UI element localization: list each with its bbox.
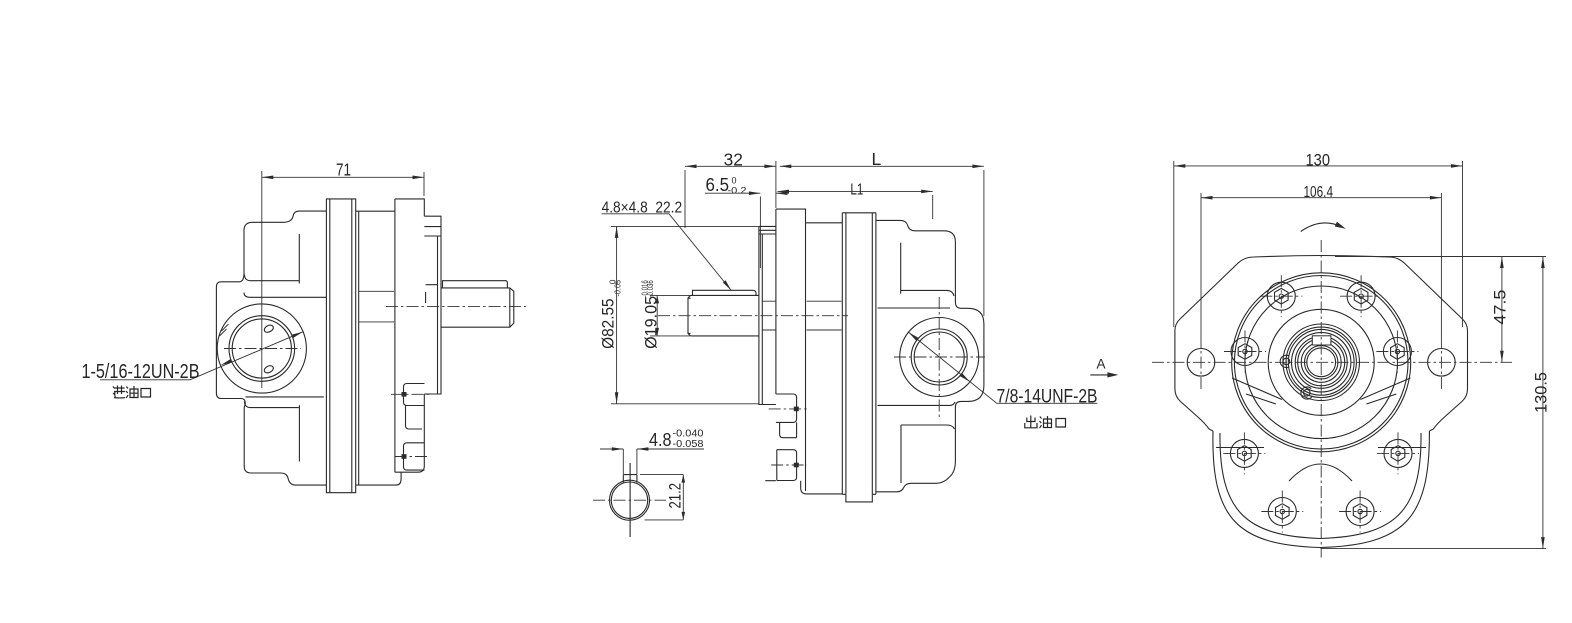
bolt mid-left [1224, 331, 1266, 373]
gear housing [356, 211, 401, 485]
shaft cross-section circle [593, 463, 666, 537]
svg-text:A: A [1097, 357, 1106, 372]
svg-text:47.5: 47.5 [1491, 290, 1510, 325]
inlet port pin hole lower [263, 364, 274, 374]
dimension 4.8 tol (key width) [600, 429, 704, 475]
dimension 47.5 [1335, 257, 1546, 363]
rear cover shelf line lower [246, 396, 324, 398]
bolt upper-left [1260, 275, 1302, 317]
dimension 106.4 [1201, 184, 1441, 336]
svg-text:L1: L1 [850, 182, 863, 199]
flange side boss upper (middle) [776, 394, 797, 422]
seal circles [1286, 327, 1356, 397]
shaft (middle view) [688, 295, 759, 336]
svg-text:1-5/16-12UN-2B: 1-5/16-12UN-2B [82, 361, 200, 383]
dimension 32 [685, 150, 776, 229]
retainer screw left [1283, 358, 1290, 365]
casting web lower-right [1360, 378, 1410, 404]
svg-text:71: 71 [336, 160, 351, 180]
thread hatch marks [220, 324, 229, 336]
bolt bottom-right [1339, 491, 1381, 533]
rear cover outline [216, 211, 326, 485]
gear housing outer circles [1232, 273, 1411, 452]
middle view: side view of gear pump (outlet side) [593, 149, 1118, 537]
shaft key (middle view) [693, 290, 757, 295]
right view horizontal centerline [1152, 361, 1512, 363]
middle plate (middle view) [842, 213, 876, 502]
svg-text:130.5: 130.5 [1532, 372, 1551, 413]
svg-text:-0.036: -0.036 [645, 280, 655, 297]
shelf line right [1378, 447, 1426, 449]
rear cover pocket vertical [298, 234, 300, 284]
rotation direction arrow [1301, 222, 1346, 232]
seal housing circle [1268, 309, 1374, 415]
keyway notch [1312, 336, 1331, 345]
inlet port horizontal centerline [224, 348, 301, 350]
svg-text:Ø82.55: Ø82.55 [600, 298, 618, 349]
dimension 130 [1174, 152, 1463, 328]
retainer screw lower [1304, 390, 1311, 397]
shaft [441, 288, 514, 327]
rear cover outline (middle view) [876, 220, 984, 491]
label 进油口 (oil inlet) [113, 386, 151, 399]
leader 7/8-14UNF-2B [908, 332, 1097, 407]
front cover boss circle [1245, 286, 1398, 439]
dimension 71 [262, 160, 424, 197]
svg-text:-0.05: -0.05 [612, 280, 622, 297]
mounting flange [395, 199, 424, 472]
inlet port pin hole upper [263, 324, 274, 334]
shaft centerline [386, 306, 526, 308]
shaft bore circle [1301, 342, 1341, 382]
svg-text:106.4: 106.4 [1304, 184, 1334, 201]
inlet port thread major circle [229, 316, 295, 382]
inlet port thread minor circle [232, 319, 291, 378]
port vertical centerline [261, 171, 263, 388]
pilot bore stub lines [763, 301, 776, 330]
gear bore lines (middle) [807, 301, 842, 330]
shelf line left [1216, 447, 1264, 449]
bolt bottom-left [1261, 491, 1303, 533]
outlet port thread circles [911, 329, 967, 385]
side boss upper step [406, 406, 423, 430]
svg-text:-0.2: -0.2 [728, 186, 747, 196]
rear cover inner shelf lower [878, 402, 956, 405]
gear bore lines [359, 291, 394, 322]
svg-text:130: 130 [1306, 152, 1331, 170]
svg-text:Ø19.05: Ø19.05 [643, 296, 661, 349]
rear cover lower body inner wall [1220, 433, 1421, 539]
gerotor bump arc [1289, 464, 1352, 481]
svg-text:4.8: 4.8 [649, 430, 672, 450]
svg-text:-0.040: -0.040 [673, 429, 704, 440]
rear cover shelf line upper [244, 293, 326, 298]
ear hole left [1187, 349, 1215, 377]
retainer thick circle [1283, 324, 1360, 401]
right view vertical centerline [1320, 240, 1322, 558]
dimension dia19.05 tol [640, 280, 713, 349]
mounting flange (middle) [765, 209, 805, 491]
ear hole right [1428, 349, 1456, 377]
pilot keyway lines [426, 285, 438, 303]
right view: front (flange face) view [1152, 152, 1551, 558]
svg-text:0: 0 [732, 176, 737, 186]
dimension L [780, 149, 984, 316]
shaft centerline (middle view) [658, 315, 848, 317]
svg-text:6.5: 6.5 [706, 175, 730, 195]
section view arrow A [1090, 357, 1118, 378]
side boss upper [404, 384, 425, 406]
dimension dia82.55 tol [600, 226, 759, 403]
dimension 6.5 tol [705, 161, 789, 268]
middle plate [326, 199, 355, 493]
casting web lower-left [1232, 378, 1282, 404]
dimension L1 [778, 182, 933, 220]
outlet port boss circle [900, 318, 979, 397]
shaft key [443, 281, 508, 288]
svg-text:21.2: 21.2 [667, 483, 685, 509]
flange side boss lower (middle) [777, 450, 797, 481]
gear housing (middle) [801, 223, 843, 494]
label 出油口 (oil outlet) [1025, 416, 1066, 429]
pilot ring [424, 236, 441, 394]
side boss upper centerline [391, 393, 430, 395]
bolt lower-left [1223, 432, 1265, 474]
rear cover inner shelf upper [878, 307, 951, 309]
bolt upper-right [1340, 275, 1382, 317]
pilot step block [424, 216, 441, 236]
dimension 21.2 [640, 475, 685, 520]
leader line 1-5/16-12UN-2B [82, 332, 304, 383]
inlet port boss circle [217, 304, 306, 393]
svg-text:7/8-14UNF-2B: 7/8-14UNF-2B [997, 387, 1098, 408]
svg-text:-0.058: -0.058 [673, 439, 704, 450]
side boss lower [404, 443, 425, 470]
pilot step block (middle) [759, 226, 776, 404]
rear cover pocket lines [244, 275, 299, 281]
bolt mid-right [1376, 331, 1418, 373]
keyway leader 4.8x4.8 22.2 [602, 200, 732, 291]
outlet port centerlines [894, 356, 985, 358]
bolt lower-right [1377, 432, 1419, 474]
flange plate outline [1175, 256, 1468, 432]
rear cover pocket lines (middle) [901, 243, 954, 296]
left view: side view of gear pump (inlet side) [82, 160, 527, 493]
rear cover lower body outline [1213, 431, 1430, 548]
side boss lower centerline [395, 456, 431, 458]
dimension 130.5 [1321, 257, 1551, 549]
